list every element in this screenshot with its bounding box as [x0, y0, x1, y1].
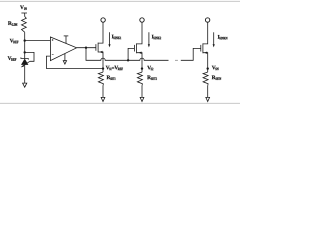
- wire op-amp inverting input lead: [46, 56, 50, 69]
- op-amp U1: [50, 37, 76, 61]
- op-amp - mark: [52, 54, 54, 56]
- terminal drain 1: [101, 18, 105, 22]
- wire VSN to RSETN: [207, 69, 209, 73]
- op-amp + mark: [52, 39, 54, 41]
- ground (RSET1): [101, 97, 105, 101]
- ground (op-amp): [63, 54, 66, 65]
- wire op-amp output: [77, 47, 96, 49]
- label VREF node: [10, 39, 19, 43]
- wire zener feedback loop: [25, 52, 34, 61]
- resistor RSET2: [137, 72, 142, 86]
- ground (RSET2): [140, 97, 144, 101]
- label RSET1: [107, 76, 116, 80]
- ground (zener): [23, 83, 27, 87]
- resistor RSET1: [98, 72, 103, 86]
- wire RSETN to ground: [207, 86, 209, 98]
- label RSETN: [212, 76, 221, 80]
- transistor M1: [96, 22, 103, 68]
- current arrow ISINK1: [108, 32, 110, 47]
- node VSN: [207, 67, 209, 69]
- resistor RLIM: [22, 17, 27, 33]
- label ISINK2: [152, 35, 161, 39]
- wire gate bus: [86, 48, 169, 61]
- wire RSET1 to ground: [102, 86, 104, 98]
- terminal drain N: [205, 18, 209, 22]
- node gate bus tap M2: [127, 59, 129, 61]
- label VREF zener: [8, 56, 17, 60]
- wire feedback rail: [46, 68, 103, 70]
- ground (RSETN): [206, 97, 210, 101]
- wire zener anode to ground: [24, 65, 26, 83]
- op-amp power rail: [64, 36, 69, 44]
- node VS2: [141, 67, 143, 69]
- node VREF: [24, 39, 26, 41]
- wire gate bus to MN: [181, 48, 201, 60]
- node zener cathode tap: [24, 51, 26, 53]
- frame borders (decorative): [0, 0, 240, 2]
- label ISINKN: [218, 35, 228, 39]
- node gate bus junction: [85, 47, 87, 49]
- zener reference diode VREF: [21, 57, 30, 67]
- current arrow ISINK2: [148, 32, 150, 47]
- node source sense VS1: [102, 67, 104, 69]
- label VIN: [20, 5, 27, 9]
- resistor RSETN: [203, 72, 208, 86]
- label ISINK1: [112, 35, 121, 39]
- VIN terminal: [21, 13, 27, 17]
- label RSET2: [147, 76, 157, 80]
- wire gate lead M2: [128, 48, 134, 60]
- label RLIM: [8, 21, 17, 25]
- transistor MN: [201, 22, 208, 68]
- label VSN: [212, 66, 219, 70]
- transistor M2: [134, 22, 142, 68]
- wire VS1 to RSET1: [102, 69, 104, 73]
- wire VS2 to RSET2: [141, 69, 143, 73]
- wire RLIM bottom to zener: [24, 32, 26, 58]
- label VS1=VREF: [106, 66, 123, 70]
- terminal drain 2: [140, 18, 144, 22]
- wire VREF to op-amp + input: [25, 40, 51, 42]
- label VS2: [147, 66, 153, 70]
- wire gate bus dashed continuation: [175, 59, 178, 61]
- current arrow ISINKN: [213, 32, 215, 47]
- wire RSET2 to ground: [141, 86, 143, 98]
